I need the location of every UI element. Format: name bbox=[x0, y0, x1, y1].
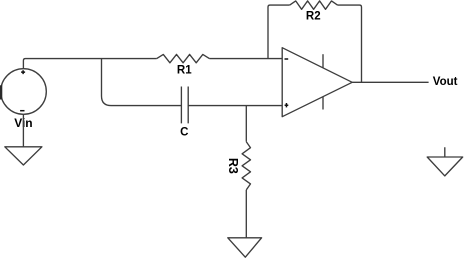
svg-text:R2: R2 bbox=[306, 11, 321, 23]
plus mark of source bbox=[21, 70, 25, 74]
op-amp positive supply tick bbox=[322, 54, 324, 68]
svg-text:R3: R3 bbox=[226, 158, 240, 174]
op-amp non-inverting pin mark bbox=[285, 103, 289, 107]
ground below R3 bbox=[228, 238, 262, 257]
op-amp U1 bbox=[282, 48, 352, 117]
ground at right bbox=[427, 147, 463, 176]
op-amp inverting pin mark bbox=[285, 58, 289, 60]
wire branch to capacitor bbox=[102, 59, 182, 106]
minus mark of source bbox=[20, 110, 24, 112]
resistor R1 bbox=[157, 54, 210, 62]
source left terminal mark bbox=[0, 85, 2, 99]
svg-text:R1: R1 bbox=[177, 64, 192, 76]
wire feedback right vertical bbox=[338, 5, 362, 82]
wire R1 to inverting input bbox=[209, 58, 282, 60]
wire source top lead bbox=[23, 59, 156, 69]
wire R3 bottom lead bbox=[245, 190, 247, 238]
op-amp negative supply tick bbox=[322, 97, 324, 110]
resistor R2 bbox=[290, 1, 338, 9]
wire output bbox=[352, 81, 428, 83]
svg-text:Vout: Vout bbox=[433, 76, 458, 88]
capacitor C bbox=[181, 87, 188, 124]
wire source bottom lead bbox=[22, 114, 24, 147]
ground below Vin bbox=[5, 147, 42, 165]
svg-text:C: C bbox=[180, 126, 188, 138]
resistor R3 bbox=[242, 142, 250, 190]
wire R3 top lead bbox=[245, 106, 247, 142]
wire capacitor to non-inverting input bbox=[188, 105, 282, 107]
wire feedback left vertical bbox=[268, 5, 290, 59]
voltage source Vin bbox=[1, 69, 47, 115]
